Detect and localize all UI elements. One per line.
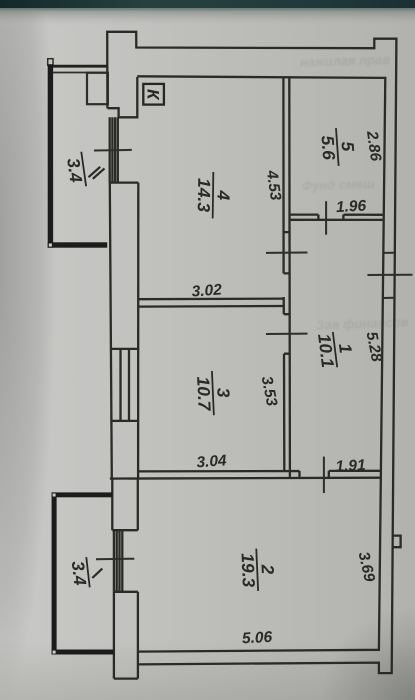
room 3 label 3/10.7	[193, 370, 234, 416]
dimension ticks	[94, 150, 413, 559]
svg-text:3: 3	[213, 387, 233, 398]
svg-text:3.4: 3.4	[68, 560, 91, 587]
svg-text:19.3: 19.3	[237, 553, 258, 588]
loggia I thick walls (bottom balcony)	[52, 492, 114, 654]
svg-text:3.04: 3.04	[196, 452, 228, 471]
svg-text:нажилая прав: нажилая прав	[300, 52, 391, 70]
kitchen (room 5) bottom wall with door opening	[289, 215, 382, 220]
svg-text:14.3: 14.3	[194, 178, 214, 213]
svg-text:5.06: 5.06	[242, 629, 273, 648]
outer wall bump on right edge	[394, 536, 401, 548]
room 2 label 2/19.3	[237, 548, 278, 592]
wall face x=138 (left wall of rooms 4,3)	[137, 183, 139, 479]
partition rooms 4|5 : right line	[288, 77, 291, 478]
pier above window W3	[112, 478, 138, 530]
loggia I label I/3.4	[67, 557, 102, 589]
window W2 of room 3 (ladder)	[111, 349, 139, 421]
loggia II thick walls (top balcony)	[48, 59, 108, 248]
bleed-through text line 1	[300, 52, 391, 70]
room 5 label 5/5.6	[317, 127, 359, 168]
svg-text:3.02: 3.02	[191, 281, 223, 300]
svg-text:1.96: 1.96	[336, 198, 367, 217]
svg-text:5: 5	[337, 141, 358, 152]
outer wall: top-left protrusion, top wall, right wall with bottom foot	[107, 32, 396, 673]
svg-text:Фунд смеш: Фунд смеш	[302, 176, 375, 194]
svg-text:4: 4	[213, 189, 233, 200]
room 4 label 4/14.3	[194, 172, 234, 219]
partition rooms 4|3	[138, 299, 284, 307]
svg-text:2: 2	[257, 563, 277, 575]
loggia II closet	[87, 73, 108, 104]
wall corner jog near kitchen vent box	[108, 77, 138, 117]
window W3 of room 2	[114, 530, 138, 592]
loggia II label II/3.4	[62, 152, 104, 189]
partition rungs (door jambs)	[283, 232, 289, 354]
room 1 label 1/10.1	[314, 329, 358, 369]
window W1 loggia door block (top left)	[110, 117, 139, 182]
svg-text:5.6: 5.6	[317, 135, 339, 161]
pier below window W3	[114, 592, 138, 679]
partition rooms 4|5 : left line with door gaps	[282, 77, 285, 471]
left outer wall strip below loggia II	[110, 183, 112, 479]
svg-text:1.91: 1.91	[335, 457, 366, 476]
kitchen vent box K	[143, 84, 164, 105]
dark header strip	[0, 0, 415, 8]
partition corridor+room3 | room 2 with door	[110, 471, 381, 479]
bleed-through text line 3	[316, 314, 409, 332]
svg-text:К: К	[144, 89, 163, 101]
inner wall line: top, right, bottom	[137, 76, 385, 651]
svg-text:3.4: 3.4	[63, 157, 86, 184]
svg-text:10.7: 10.7	[193, 376, 215, 412]
svg-text:10.1: 10.1	[314, 333, 338, 369]
bleed-through text line 2	[302, 176, 375, 194]
